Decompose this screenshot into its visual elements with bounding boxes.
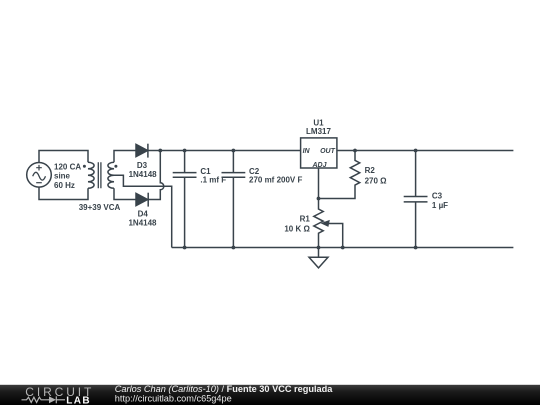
svg-text:R2: R2 [365, 166, 376, 175]
resistor R2 [319, 151, 360, 199]
wire: D3 cathode to junction [148, 150, 160, 152]
node: C3 top [414, 149, 418, 153]
pin labels of U1 [303, 148, 336, 169]
node: ADJ junction [317, 197, 321, 201]
wire: top rail right (LM317 OUT to right end) [337, 150, 514, 152]
junction dots [83, 149, 418, 250]
node: C2 top [232, 149, 236, 153]
labels [54, 118, 448, 233]
wire: U1 ADJ pin down [318, 168, 320, 199]
wire: D4 cathode to vertical riser with hop over center tap [148, 151, 164, 200]
node: transformer secondary phase dot [114, 165, 117, 168]
transformer T1 secondary winding [108, 162, 114, 188]
svg-text:120 CA: 120 CA [54, 162, 81, 171]
voltage source V1 circle [27, 163, 52, 188]
wire: secondary top stub [114, 151, 136, 163]
svg-text:1 µF: 1 µF [432, 201, 448, 210]
svg-text:270 mf 200V F: 270 mf 200V F [249, 176, 302, 185]
node: R1 bottom / ground [317, 246, 321, 250]
resistor R1 potentiometer body [314, 199, 323, 248]
svg-text:OUT: OUT [320, 148, 336, 155]
voltage source V1 minus sign [36, 182, 42, 184]
svg-text:Carlos Chan (Carlitos-10) / Fu: Carlos Chan (Carlitos-10) / Fuente 30 VC… [115, 384, 333, 394]
R1 wiper arm wire [328, 224, 343, 248]
svg-text:LM317: LM317 [306, 127, 331, 136]
capacitor C1 [173, 151, 197, 248]
transformer T1 primary winding [88, 162, 94, 188]
diode D4 [136, 193, 148, 207]
svg-text:C3: C3 [432, 192, 443, 201]
svg-text:.1 mf F: .1 mf F [200, 176, 226, 185]
logo doodle: wire resistor diode [22, 396, 66, 403]
wire: left loop bottom (primary to source) [39, 187, 88, 199]
voltage source V1 sine [33, 172, 46, 180]
svg-text:IN: IN [303, 148, 311, 155]
svg-text:1N4148: 1N4148 [129, 170, 158, 179]
node: D3/D4 cathode junction [158, 149, 162, 153]
node: C2 bottom [232, 246, 236, 250]
svg-text:270 Ω: 270 Ω [365, 176, 388, 185]
svg-text:60 Hz: 60 Hz [54, 181, 75, 190]
node: C3 bottom [414, 246, 418, 250]
wire: secondary center tap [114, 175, 172, 247]
op-amp U1 LM317 box [301, 138, 337, 168]
capacitor C2 [222, 151, 246, 248]
svg-text:http://circuitlab.com/c65g4pe: http://circuitlab.com/c65g4pe [115, 394, 232, 404]
wire: bottom rail [172, 247, 514, 249]
diode D3 [136, 144, 148, 158]
node: C1 bottom [183, 246, 187, 250]
node: wiper bottom [341, 246, 345, 250]
node: R2 top [353, 149, 357, 153]
node: transformer primary phase dot [83, 165, 86, 168]
svg-text:R1: R1 [300, 215, 311, 224]
node: C1 top [183, 149, 187, 153]
wire: top rail left (junction to LM317 IN) [160, 150, 300, 152]
R1 wiper arrowhead [321, 220, 330, 227]
svg-text:10 K Ω: 10 K Ω [284, 225, 310, 234]
ground [309, 248, 328, 268]
transformer T1 core [98, 162, 101, 188]
svg-text:LAB: LAB [66, 395, 91, 405]
footer bar [0, 385, 540, 405]
wire: secondary bottom stub [114, 188, 136, 199]
voltage source V1 plus sign [36, 165, 42, 171]
svg-text:ADJ: ADJ [311, 162, 327, 169]
svg-text:D3: D3 [137, 161, 148, 170]
svg-text:39+39 VCA: 39+39 VCA [79, 203, 121, 212]
svg-text:1N4148: 1N4148 [128, 218, 157, 227]
svg-text:sine: sine [54, 172, 71, 181]
capacitor C3 [404, 151, 428, 248]
svg-text:D4: D4 [138, 209, 149, 218]
wire: left loop top (source to primary) [39, 151, 88, 163]
